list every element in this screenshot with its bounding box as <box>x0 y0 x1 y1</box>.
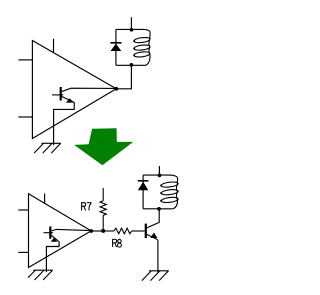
node at U2 output apex <box>89 229 93 233</box>
transistor internal to U2 base bar <box>49 227 51 239</box>
relay coil K2 <box>160 175 178 209</box>
wire left branch with diode D1 <box>115 29 117 65</box>
label R8 <box>113 239 122 247</box>
Q internal emitter arrowhead <box>66 98 74 102</box>
transistor Q internal to U1 (open-collector output) base bar <box>60 87 62 101</box>
wire left branch with diode D2 <box>142 175 144 209</box>
wire emitter to ground (L-shape) <box>54 102 75 145</box>
U1 inverting input pin <box>18 116 32 118</box>
diode D1 cathode bar <box>110 42 121 44</box>
relay coil K1 <box>133 29 150 65</box>
Q internal base stub <box>52 94 63 96</box>
wire U2 output to node <box>91 230 103 232</box>
wire supply stub to relay 2 top <box>158 166 160 175</box>
node at U1 output apex <box>114 87 118 91</box>
wire U1 output to relay bottom node <box>116 65 131 89</box>
ground under U1 <box>34 143 61 153</box>
U2 internal emitter line <box>51 235 59 242</box>
diode D2 cathode bar <box>138 180 149 182</box>
junction node top of relay pair <box>130 28 134 32</box>
U2 inverting input pin <box>18 251 28 253</box>
wire bottom rail of relay/diode pair <box>116 64 146 66</box>
ground under U2 <box>28 270 53 280</box>
U2 internal collector line to output apex <box>51 229 92 231</box>
U1 non-inverting input pin <box>18 59 32 61</box>
wire Q1 emitter to ground <box>157 240 159 273</box>
junction node output/R7/R8 <box>101 229 105 233</box>
wire top rail of relay/diode pair 2 <box>143 174 170 176</box>
wire U2 emitter to ground (L-shape) <box>46 242 59 273</box>
big green arrow <box>74 128 133 165</box>
wire top rail of relay/diode pair <box>116 28 144 30</box>
junction node bottom of relay pair <box>130 63 134 67</box>
Q1 emitter arrowhead <box>150 233 157 239</box>
U2 non-inverting input pin <box>18 209 28 211</box>
junction node top of relay pair 2 <box>158 174 162 178</box>
resistor R7 (vertical) <box>100 188 106 231</box>
U2 V+ power pin <box>44 194 46 204</box>
Q1 emitter line <box>147 234 158 239</box>
junction node bottom of relay pair 2 <box>157 207 161 211</box>
U2 internal emitter arrowhead <box>51 238 58 242</box>
Q1 collector wire to relay bottom node <box>147 209 160 228</box>
U2 internal base stub <box>44 232 54 234</box>
diode D1 triangle <box>111 44 122 51</box>
op-amp U2 (bottom comparator triangle) <box>29 194 92 268</box>
wire supply stub to relay top <box>130 17 132 29</box>
ground under Q1 <box>142 271 169 281</box>
Q internal collector line to output apex <box>61 88 116 92</box>
diode D2 triangle <box>138 182 148 191</box>
label R7 <box>82 202 92 210</box>
Q internal emitter line <box>61 96 73 102</box>
op-amp U1 (top comparator triangle) <box>32 41 116 139</box>
resistor R8 (horizontal) <box>103 228 145 234</box>
transistor Q1 base bar <box>145 224 147 239</box>
U1 V+ power pin <box>53 39 55 53</box>
wire bottom rail of relay/diode pair 2 <box>143 208 173 210</box>
